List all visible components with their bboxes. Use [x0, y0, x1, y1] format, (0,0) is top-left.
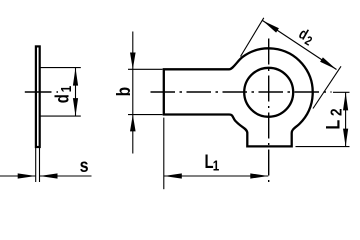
L1 extension line left — [163, 118, 165, 190]
svg-text:b: b — [113, 87, 135, 97]
d2 extension line lower-right — [313, 66, 341, 108]
d1 arrow down — [73, 98, 78, 116]
washer side view (left) — [36, 46, 40, 147]
L2 arrow down — [343, 129, 348, 147]
washer front view outline — [164, 48, 313, 146]
b arrow up (below bottom ext) — [130, 115, 136, 132]
horizontal centerline — [151, 91, 332, 93]
L2 extension line bottom — [296, 146, 350, 148]
s arrow left-pointing — [40, 173, 58, 178]
b extension line top — [128, 68, 163, 70]
d2 extension line upper-left — [241, 18, 264, 57]
vertical centerline — [268, 39, 270, 184]
L1 arrow left — [164, 173, 182, 178]
b arrow down (above top ext) — [130, 53, 136, 70]
hole (inner circle) — [244, 68, 293, 117]
d1 dimension line — [75, 68, 77, 117]
d1 arrow up — [73, 68, 78, 86]
b dimension line — [132, 32, 134, 154]
d1 extension line bottom — [40, 115, 81, 117]
s dimension line left segment — [0, 175, 36, 177]
L2 arrow up — [343, 92, 348, 110]
s arrow right-pointing — [18, 173, 36, 178]
svg-text:s: s — [80, 155, 89, 177]
s dimension line right segment — [40, 175, 92, 177]
s extension lines — [36, 148, 40, 182]
d2 arrow upper-left — [263, 21, 279, 33]
d1 extension line top — [40, 67, 81, 69]
L1 arrow right — [250, 173, 268, 178]
d2 dimension line — [263, 21, 337, 70]
centerline left view — [25, 91, 58, 93]
b extension line bottom — [128, 114, 163, 116]
L2 dimension line — [345, 92, 347, 146]
L2 extension line top — [333, 91, 350, 93]
L1 dimension line — [164, 175, 268, 177]
d2 arrow lower-right — [320, 57, 336, 69]
